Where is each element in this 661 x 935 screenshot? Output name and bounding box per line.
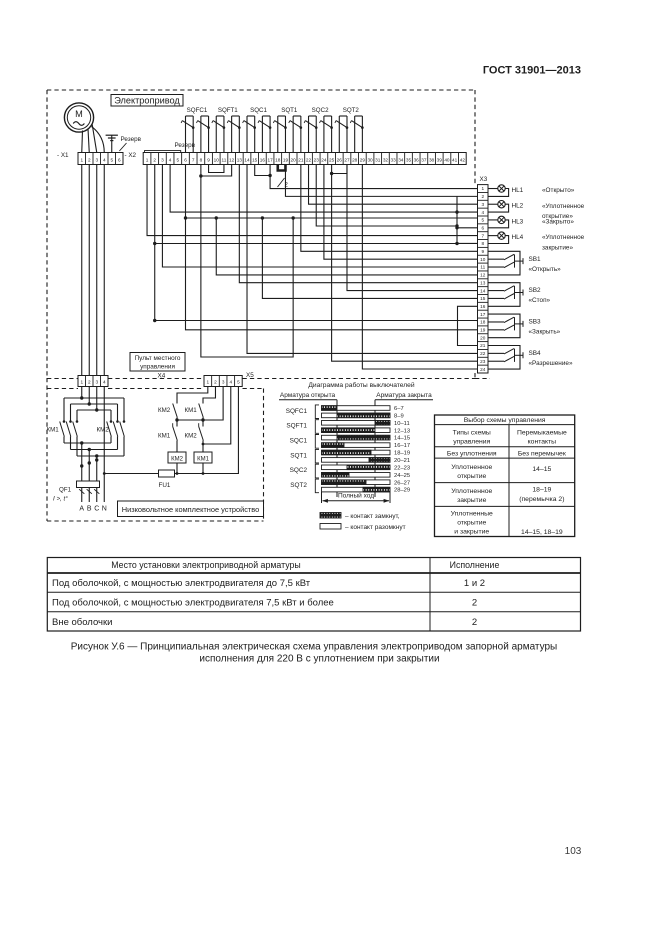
svg-text:26–27: 26–27: [394, 480, 410, 486]
svg-text:1: 1: [207, 379, 210, 384]
svg-text:30: 30: [367, 157, 373, 162]
svg-text:31: 31: [375, 157, 381, 162]
svg-text:КМ1: КМ1: [185, 407, 198, 414]
svg-text:20: 20: [480, 335, 486, 340]
svg-text:Под оболочкой, с мощностью эле: Под оболочкой, с мощностью электродвигат…: [52, 578, 311, 589]
svg-text:11: 11: [480, 265, 485, 270]
svg-text:КМ2: КМ2: [97, 427, 110, 434]
motor M (electric drive): [64, 103, 93, 132]
svg-text:«Закрыть»: «Закрыть»: [529, 329, 561, 336]
svg-text:Низковольтное комплектное устр: Низковольтное комплектное устройство: [122, 505, 259, 514]
svg-text:Арматура открыта: Арматура открыта: [280, 392, 336, 399]
diagram row group SQT1: [290, 449, 319, 463]
svg-text:КМ2: КМ2: [185, 433, 198, 440]
wire: X2:6 to X3:5 (lamp HL3 feed), taps at X2:10,16,20: [184, 165, 478, 220]
svg-text:Типы схемы: Типы схемы: [453, 430, 491, 437]
wire: X2:10 to X3:12: [216, 218, 477, 275]
svg-text:16–17: 16–17: [394, 443, 410, 449]
svg-text:1: 1: [80, 379, 83, 384]
lamp HL4: [488, 232, 585, 251]
svg-text:2: 2: [214, 379, 217, 384]
label: Резерв (X2:1-5 reserve, with bracket): [145, 142, 196, 153]
svg-text:42: 42: [460, 157, 466, 162]
svg-text:11: 11: [222, 157, 227, 162]
svg-text:КМ1: КМ1: [47, 427, 60, 434]
svg-text:4: 4: [481, 210, 484, 215]
wire: X2:8 - X2:20 lower link: [201, 176, 293, 357]
svg-text:24: 24: [321, 157, 327, 162]
wire: X5:2 to branch B: [203, 387, 215, 403]
svg-text:SQFC1: SQFC1: [187, 107, 208, 114]
button SB3: [488, 314, 561, 338]
svg-text:2: 2: [472, 617, 477, 628]
svg-text:24: 24: [480, 367, 486, 372]
svg-text:X5: X5: [246, 372, 254, 379]
label box: Пульт местного управления: [130, 353, 185, 372]
svg-text:15: 15: [480, 296, 486, 301]
diagram bar 6–7: [322, 406, 404, 412]
label box: Низковольтное комплектное устройство: [118, 501, 264, 517]
svg-text:3: 3: [481, 202, 484, 207]
svg-text:8: 8: [481, 241, 484, 246]
figure caption: [71, 642, 558, 665]
svg-text:4: 4: [103, 379, 106, 384]
svg-text:Под оболочкой, с мощностью эле: Под оболочкой, с мощностью электродвигат…: [52, 598, 334, 609]
auxiliary contact KM2 (NO, branch A): [158, 402, 177, 420]
limit switch SQC1 (two contacts): [243, 107, 272, 153]
legend: contact open: [320, 524, 406, 532]
svg-text:исполнения для 220 В с уплотне: исполнения для 220 В с уплотнением при з…: [199, 654, 439, 665]
svg-text:1: 1: [80, 157, 83, 162]
svg-text:SQC1: SQC1: [290, 438, 308, 445]
svg-text:Уплотненные: Уплотненные: [451, 511, 493, 518]
svg-text:1 и 2: 1 и 2: [464, 578, 485, 589]
svg-text:5: 5: [481, 218, 484, 223]
svg-text:I >, t°: I >, t°: [53, 496, 68, 503]
svg-text:и закрытие: и закрытие: [454, 529, 489, 536]
svg-text:5: 5: [237, 379, 240, 384]
svg-text:(перемычка 2): (перемычка 2): [519, 496, 564, 503]
fuse FU1: [104, 470, 174, 489]
contactor KM1 main contacts: [47, 420, 79, 436]
svg-text:20: 20: [291, 157, 297, 162]
circuit breaker QF1: [53, 481, 100, 503]
svg-text:8–9: 8–9: [394, 414, 404, 420]
wire: X2:1 to X3:7 (lamp HL4 feed): [147, 165, 477, 236]
enclosure: low-voltage switchgear unit (dashed box): [47, 378, 264, 521]
svg-text:SQC2: SQC2: [312, 107, 329, 114]
svg-text:7: 7: [481, 233, 484, 238]
svg-text:36: 36: [414, 157, 420, 162]
svg-text:9: 9: [207, 157, 210, 162]
svg-text:QF1: QF1: [59, 487, 72, 494]
svg-text:SQFT1: SQFT1: [286, 423, 307, 430]
svg-text:21: 21: [480, 343, 486, 348]
svg-text:«Разрешение»: «Разрешение»: [529, 360, 573, 367]
limit switch SQC2 (two contacts): [304, 107, 333, 153]
legend: contact closed: [320, 513, 400, 521]
svg-text:12–13: 12–13: [394, 428, 410, 434]
svg-text:14–15: 14–15: [394, 436, 410, 442]
svg-text:Место установки электроприводн: Место установки электроприводной арматур…: [111, 560, 300, 570]
svg-text:16: 16: [480, 304, 486, 309]
svg-text:37: 37: [421, 157, 427, 162]
diagram bar 10–11: [322, 421, 410, 427]
ground symbol on X1:5: [106, 135, 118, 152]
svg-text:21: 21: [298, 157, 304, 162]
svg-text:X3: X3: [480, 176, 488, 183]
contactor coil KM2: [168, 452, 186, 475]
svg-text:28: 28: [352, 157, 358, 162]
svg-text:2: 2: [88, 379, 91, 384]
table: Выбор схемы управления: [435, 415, 575, 537]
svg-text:5: 5: [177, 157, 180, 162]
diagram bar 20–21: [322, 458, 411, 464]
svg-text:34: 34: [398, 157, 404, 162]
limit switch SQFC1 (two contacts): [181, 107, 210, 153]
svg-text:22: 22: [480, 351, 486, 356]
labels A B C N (supply): [79, 506, 106, 513]
wire: X1:1-4 down to X4:1-4: [82, 165, 105, 376]
svg-text:15: 15: [252, 157, 258, 162]
svg-text:2: 2: [481, 194, 484, 199]
diagram bar 14–15: [322, 435, 411, 441]
svg-text:«Уплотненное: «Уплотненное: [542, 234, 585, 241]
svg-text:14–15, 18–19: 14–15, 18–19: [521, 529, 563, 536]
svg-text:14: 14: [244, 157, 250, 162]
svg-text:22–23: 22–23: [394, 465, 410, 471]
terminal strip X2: [125, 152, 467, 165]
svg-text:6: 6: [481, 225, 484, 230]
svg-text:Диаграмма работы выключателей: Диаграмма работы выключателей: [308, 381, 414, 389]
svg-text:9: 9: [481, 249, 484, 254]
svg-text:10: 10: [214, 157, 220, 162]
wire: X2:16 to X3:15: [262, 218, 477, 298]
svg-text:13: 13: [480, 280, 486, 285]
wire: X5:5 down to fuse bus: [175, 387, 239, 474]
svg-text:6: 6: [118, 157, 121, 162]
svg-text:Без перемычек: Без перемычек: [518, 451, 566, 458]
svg-text:38: 38: [429, 157, 435, 162]
button SB2: [488, 283, 551, 307]
label: Арматура закрыта (with position line): [375, 392, 433, 497]
diagram row group SQC2: [290, 464, 319, 478]
svg-text:SB2: SB2: [529, 287, 542, 294]
diagram row group SQC1: [290, 435, 319, 449]
limit switch SQFT1 (two contacts): [212, 107, 241, 153]
svg-text:35: 35: [406, 157, 412, 162]
svg-text:А: А: [79, 506, 84, 513]
svg-text:19: 19: [283, 157, 289, 162]
svg-text:2: 2: [472, 598, 477, 609]
svg-text:3: 3: [222, 379, 225, 384]
svg-text:7: 7: [192, 157, 195, 162]
svg-text:Без уплотнения: Без уплотнения: [447, 451, 497, 458]
svg-text:управления: управления: [453, 439, 490, 446]
svg-text:3: 3: [95, 379, 98, 384]
svg-text:Уплотненное: Уплотненное: [451, 464, 492, 471]
svg-text:HL2: HL2: [512, 203, 524, 210]
svg-text:18–19: 18–19: [394, 451, 410, 457]
svg-text:SQFT1: SQFT1: [218, 107, 238, 114]
svg-text:10–11: 10–11: [394, 421, 410, 427]
enclosure: electric drive unit (dashed box): [47, 90, 490, 379]
label: Полный ход (full travel arrow): [322, 492, 391, 503]
wire: jumper X2:9 - X2:11: [209, 165, 224, 173]
wire: neutral from X4:4 down: [103, 387, 106, 503]
svg-text:КМ2: КМ2: [171, 457, 183, 463]
svg-text:контакты: контакты: [528, 439, 557, 446]
svg-text:FU1: FU1: [159, 482, 171, 489]
diagram bar 18–19: [322, 450, 411, 456]
svg-text:- X2: - X2: [125, 152, 137, 159]
lamp HL1: [488, 185, 575, 197]
lamp HL2: [488, 201, 585, 221]
svg-text:SQC1: SQC1: [250, 107, 267, 114]
svg-text:27: 27: [344, 157, 350, 162]
svg-text:SQT2: SQT2: [343, 107, 360, 114]
limit switch SQT2 (two contacts): [335, 107, 364, 153]
svg-text:Вне оболочки: Вне оболочки: [52, 617, 112, 628]
wire: jumper X2:8 - X2:12: [199, 165, 231, 178]
lamp HL3: [488, 216, 574, 228]
svg-text:6–7: 6–7: [394, 406, 404, 412]
svg-text:5: 5: [110, 157, 113, 162]
wire: X2:19 to lamp common bus: [285, 171, 477, 197]
svg-text:Арматура закрыта: Арматура закрыта: [376, 392, 432, 399]
terminal strip X4: [78, 373, 166, 387]
svg-text:1: 1: [481, 186, 484, 191]
wire: X2:17 to X3:1 (lamp HL1 feed): [270, 176, 477, 189]
svg-text:«Стоп»: «Стоп»: [529, 297, 551, 304]
svg-text:23: 23: [480, 359, 486, 364]
svg-text:закрытие»: закрытие»: [542, 244, 573, 251]
svg-text:HL3: HL3: [512, 218, 524, 225]
svg-text:X4: X4: [158, 373, 166, 380]
button SB1: [488, 251, 561, 275]
svg-text:17: 17: [267, 157, 273, 162]
svg-text:ГОСТ 31901—2013: ГОСТ 31901—2013: [483, 65, 581, 77]
wire: reversing bridge top rails: [64, 387, 124, 422]
svg-text:18: 18: [480, 320, 486, 325]
svg-text:1: 1: [146, 157, 149, 162]
wire: motor phase leads to X1:1-3: [82, 125, 97, 153]
svg-text:12: 12: [229, 157, 235, 162]
svg-text:«Уплотненное: «Уплотненное: [542, 203, 585, 210]
svg-text:– контакт разомкнут: – контакт разомкнут: [345, 524, 406, 531]
contactor coil KM1: [194, 452, 212, 475]
wire: X2:3 to X3:11: [162, 165, 477, 268]
diagram bar 8–9: [322, 413, 404, 419]
svg-text:4: 4: [169, 157, 172, 162]
svg-text:14–15: 14–15: [532, 466, 551, 473]
svg-text:КМ2: КМ2: [158, 407, 171, 414]
svg-text:SB3: SB3: [529, 319, 542, 326]
switching diagram title: [308, 381, 414, 389]
svg-text:3: 3: [95, 157, 98, 162]
wire: X2:13 to X3:13 (button SB2 circuit): [239, 165, 477, 283]
diagram bar 24–25: [322, 473, 411, 479]
svg-text:SQT1: SQT1: [281, 107, 298, 114]
svg-text:32: 32: [383, 157, 389, 162]
svg-text:«Открыть»: «Открыть»: [529, 266, 562, 273]
svg-text:6: 6: [184, 157, 187, 162]
wire: X5:4 link to branch B: [202, 387, 231, 446]
svg-text:41: 41: [452, 157, 458, 162]
svg-text:Полный ход: Полный ход: [338, 492, 374, 500]
auxiliary contact KM1 (NO, branch B): [185, 402, 204, 420]
svg-text:Исполнение: Исполнение: [450, 560, 500, 570]
svg-text:HL1: HL1: [512, 187, 524, 194]
diagram row group SQFC1: [286, 405, 319, 419]
wire: X2:21 to X3:9 (button SB1 circuit): [301, 165, 478, 252]
svg-text:26: 26: [337, 157, 343, 162]
wire: X2:24 to X3:10: [324, 165, 478, 260]
diagram bar 26–27: [322, 480, 411, 486]
wire: interlock link at y=420 with X5:3: [175, 387, 223, 422]
lamp common bus at x=457 (X3:2,4,6,8): [455, 196, 477, 245]
svg-text:Рисунок У.6 — Принципиальная э: Рисунок У.6 — Принципиальная электрическ…: [71, 642, 558, 653]
svg-text:39: 39: [437, 157, 443, 162]
auxiliary contact KM1 (NC, branch A): [158, 420, 177, 452]
svg-text:КМ1: КМ1: [197, 457, 209, 463]
svg-text:3: 3: [161, 157, 164, 162]
label: Резерв (X1:6 reserve): [119, 136, 141, 151]
svg-text:19: 19: [480, 328, 486, 333]
wire: jumper X2:15 - X2:17: [255, 165, 272, 178]
svg-text:SQT1: SQT1: [290, 452, 307, 459]
wire: X2:14 to X3:22 (button SB4 circuit): [247, 165, 477, 354]
wire: X2:23 to lamp common bus: [316, 165, 458, 228]
label: /2 (jumper 2 mark): [278, 178, 289, 189]
svg-text:18–19: 18–19: [532, 487, 551, 494]
svg-text:SQT2: SQT2: [290, 482, 307, 489]
wire: X2:6 branch to X3:19: [185, 218, 477, 330]
svg-text:Выбор схемы управления: Выбор схемы управления: [464, 416, 546, 424]
svg-text:12: 12: [480, 273, 486, 278]
svg-text:Пульт местного: Пульт местного: [135, 355, 181, 362]
svg-text:«Открыто»: «Открыто»: [542, 187, 575, 194]
wire: reversing bridge bottom rails (crossed): [64, 437, 124, 482]
svg-text:22: 22: [306, 157, 312, 162]
svg-text:4: 4: [103, 157, 106, 162]
page number: [565, 846, 582, 857]
svg-text:4: 4: [229, 379, 232, 384]
svg-text:20–21: 20–21: [394, 458, 410, 464]
svg-text:С: С: [94, 506, 99, 513]
svg-text:M: M: [75, 109, 83, 119]
svg-text:2: 2: [88, 157, 91, 162]
diagram bar 16–17: [322, 443, 411, 449]
label box: Электропривод: [111, 95, 183, 107]
svg-text:открытие: открытие: [457, 520, 486, 527]
terminal strip X5: [204, 372, 254, 387]
svg-text:33: 33: [391, 157, 397, 162]
header: document title: [483, 65, 581, 77]
diagram bar 12–13: [322, 428, 411, 434]
wire: X2:25 to X3:23: [332, 174, 478, 362]
label: Арматура открыта (with position line): [279, 392, 337, 497]
svg-text:SQC2: SQC2: [290, 467, 308, 474]
svg-text:24–25: 24–25: [394, 473, 410, 479]
diagram bar 22–23: [322, 465, 411, 471]
svg-text:закрытие: закрытие: [457, 497, 486, 504]
svg-text:13: 13: [237, 157, 243, 162]
diagram row group SQFT1: [286, 420, 319, 434]
svg-text:«Закрыто»: «Закрыто»: [542, 219, 574, 226]
svg-text:В: В: [87, 506, 92, 513]
svg-text:14: 14: [480, 288, 486, 293]
svg-text:- X1: - X1: [57, 152, 69, 159]
svg-text:25: 25: [329, 157, 335, 162]
svg-text:8: 8: [200, 157, 203, 162]
wire: motor case lead to X1:4: [92, 127, 105, 153]
svg-text:SB4: SB4: [529, 350, 542, 357]
svg-text:N: N: [102, 506, 107, 513]
svg-text:29: 29: [360, 157, 366, 162]
svg-text:Перемыкаемые: Перемыкаемые: [517, 430, 567, 437]
svg-text:SB1: SB1: [529, 256, 542, 263]
wire: X2:27 to X3:14: [347, 165, 478, 291]
diagram bar 28–29: [322, 487, 411, 493]
svg-text:SQFC1: SQFC1: [286, 408, 308, 415]
svg-text:18: 18: [275, 157, 281, 162]
wire: X2:22 to X3:3 (lamp HL2 feed): [309, 165, 478, 205]
wire: X2:4 to X3:4 line joining bus: [170, 165, 457, 213]
svg-text:управления: управления: [140, 364, 175, 371]
wire: X2:29 to X3:24: [362, 165, 477, 370]
wire: X5:1 to branch A: [177, 387, 208, 403]
terminal strip X3: [478, 176, 489, 373]
svg-text:17: 17: [480, 312, 486, 317]
svg-text:Электропривод: Электропривод: [114, 96, 180, 106]
svg-text:Уплотненное: Уплотненное: [451, 488, 492, 495]
svg-text:16: 16: [260, 157, 266, 162]
table: Место установки электроприводной арматуры: [47, 558, 580, 632]
wire: link bracket X3:16 - X3:21: [458, 306, 478, 345]
svg-text:2: 2: [153, 157, 156, 162]
wire: jumper X2:25 - X2:27: [330, 165, 347, 176]
contactor KM2 main contacts: [97, 420, 126, 436]
svg-text:28–29: 28–29: [394, 488, 410, 494]
svg-text:HL4: HL4: [512, 234, 524, 241]
limit switch SQT1 (two contacts): [273, 107, 302, 153]
terminal strip X1: [57, 152, 123, 165]
wire: X2:2 branch to X3:18 (button SB3 circuit): [153, 244, 477, 323]
button SB4: [488, 346, 573, 370]
wire: X2:2 to X3:8: [153, 165, 477, 246]
svg-text:23: 23: [314, 157, 320, 162]
svg-text:КМ1: КМ1: [158, 433, 171, 440]
jumper 2 (bold link X2:18 - X2:19): [278, 165, 286, 171]
svg-text:– контакт замкнут,: – контакт замкнут,: [345, 513, 400, 520]
svg-text:40: 40: [444, 157, 450, 162]
svg-text:Резерв: Резерв: [121, 136, 142, 143]
auxiliary contact KM2 (NC, branch B): [185, 420, 204, 452]
svg-text:103: 103: [565, 846, 582, 857]
diagram row group SQT2: [290, 479, 319, 493]
svg-text:открытие: открытие: [457, 473, 486, 480]
svg-text:10: 10: [480, 257, 486, 262]
